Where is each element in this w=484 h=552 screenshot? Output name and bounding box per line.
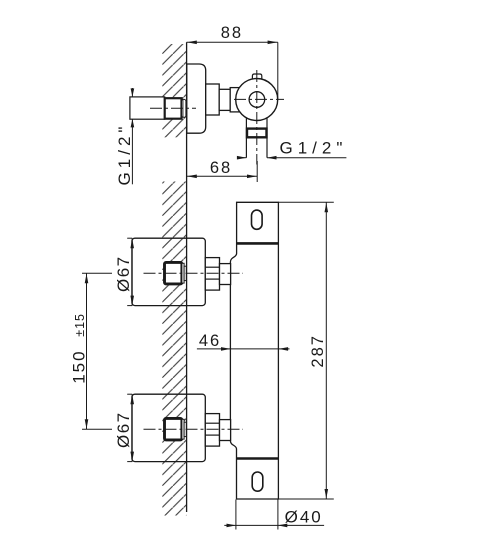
valve flange (187, 64, 206, 133)
handle thread block (205, 258, 219, 291)
supply pipe thread block (165, 98, 182, 119)
valve body circle (236, 79, 278, 121)
dim d67 line (131, 394, 133, 461)
bar body outline (230, 202, 278, 499)
outlet pipe left line (245, 118, 247, 158)
svg-text:G1/2": G1/2" (115, 123, 134, 186)
bottom bracket thick line (237, 457, 279, 460)
dim 150 line (86, 273, 88, 429)
dim 68 extension (256, 161, 258, 182)
handle strip (182, 263, 184, 283)
handle square (165, 418, 182, 440)
svg-text:150: 150 (69, 349, 88, 383)
handle small rect (184, 266, 186, 280)
dim G1/2 inlet lower segment (131, 119, 133, 184)
svg-text:±15: ±15 (73, 313, 87, 337)
handle connector block (220, 264, 231, 285)
supply pipe thread end (182, 99, 186, 117)
bottom bracket slot (252, 472, 263, 491)
dim d40 right extension (277, 500, 279, 530)
outlet nut (247, 129, 267, 138)
valve neck (206, 84, 220, 115)
svg-text:88: 88 (221, 24, 243, 42)
handle connector block (220, 420, 231, 441)
dim G1/2 outlet left segment (237, 157, 246, 159)
svg-text:Ø67: Ø67 (114, 255, 133, 292)
valve inner circle (249, 92, 265, 108)
wall hatch bottom segment (162, 182, 186, 516)
valve block C (230, 88, 240, 112)
top bracket thick line (237, 242, 279, 245)
outlet pipe right line (266, 118, 268, 158)
handle thread block (205, 414, 219, 447)
dim d40 left extension (235, 500, 237, 530)
svg-text:G1/2": G1/2" (280, 138, 348, 157)
svg-text:287: 287 (309, 334, 327, 368)
svg-text:68: 68 (210, 159, 232, 177)
bottom handle group (114, 394, 243, 461)
handle escutcheon rect (132, 238, 205, 305)
valve vertical centerline (256, 70, 258, 165)
top handle group (114, 238, 243, 305)
dim 88 right extension (277, 42, 279, 99)
svg-text:46: 46 (199, 332, 221, 350)
dim G1/2 inlet upper segment (131, 88, 133, 97)
wall hatch top segment (162, 44, 186, 137)
dim 287 line (325, 202, 327, 499)
handle strip (182, 419, 184, 439)
dim 150 extension top (82, 272, 112, 274)
handle square (165, 262, 182, 284)
dim 88 line (187, 41, 278, 43)
dim 68 line (187, 175, 258, 177)
dim G1/2 outlet right segment (267, 157, 346, 159)
dim 150 extension bottom (82, 428, 112, 430)
dim 287 top extension (278, 201, 333, 203)
wall face line (186, 42, 188, 512)
dim d40 line (224, 524, 324, 526)
supply pipe centerline (150, 107, 196, 109)
dim 46 line (197, 348, 290, 350)
handle escutcheon rect (132, 394, 205, 461)
valve block B (219, 89, 230, 110)
supply pipe G1/2 inlet body (130, 97, 165, 119)
dim 287 bottom extension (278, 498, 333, 500)
handle small rect (184, 422, 186, 436)
handle centerline (144, 272, 244, 274)
svg-text:Ø67: Ø67 (114, 411, 133, 448)
top bracket slot (252, 210, 263, 229)
valve horizontal centerline (234, 98, 284, 100)
dim d67 line (131, 238, 133, 305)
valve top cap (252, 74, 261, 82)
handle centerline (144, 428, 244, 430)
svg-text:Ø40: Ø40 (285, 507, 323, 526)
